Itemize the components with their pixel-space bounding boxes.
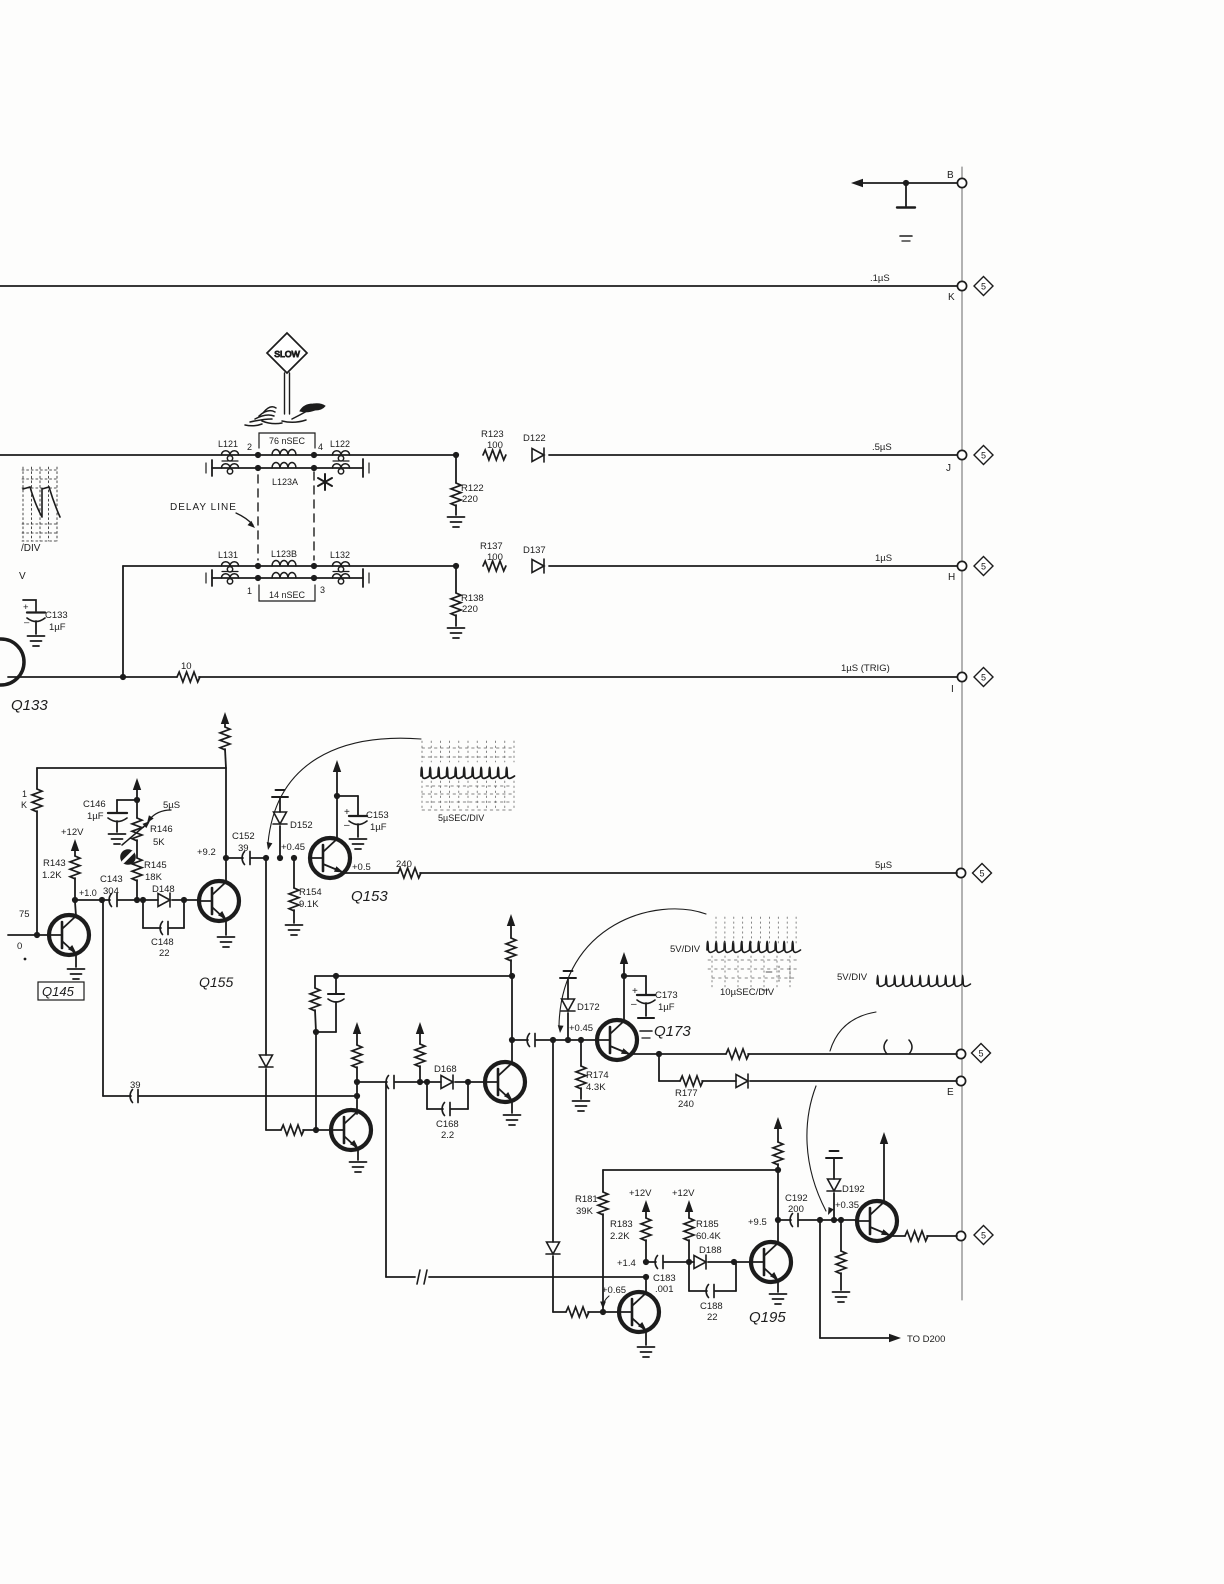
svg-text:+0.5: +0.5 (352, 862, 371, 873)
base junction (600, 1309, 606, 1315)
pointer arrow to delay line (236, 513, 253, 525)
svg-text:.1µS: .1µS (870, 273, 890, 284)
svg-text:SLOW: SLOW (274, 349, 300, 359)
svg-text:1.2K: 1.2K (42, 870, 62, 881)
resistor R154 9.1K (293, 858, 295, 888)
emitter to ground (511, 1101, 513, 1113)
svg-text:D188: D188 (699, 1245, 722, 1256)
svg-text:5µS: 5µS (163, 800, 180, 811)
termination stub left (top secondary) (211, 460, 213, 476)
node K connector (957, 281, 966, 290)
ground below C173 (638, 1017, 654, 1019)
transistor Q173 (597, 1020, 637, 1060)
waveform trace 10uSEC/DIV (707, 941, 801, 952)
node +9.5 junction (775, 1217, 781, 1223)
waveform trace right (877, 975, 971, 986)
transistor Q145 (49, 915, 89, 955)
junction (cap side) (550, 1037, 556, 1043)
bias resistor to ground (840, 1220, 842, 1251)
diode D168 (441, 1075, 453, 1089)
svg-text:R183: R183 (610, 1219, 633, 1230)
arrow top of timing network (133, 778, 141, 790)
inductor L123A secondary winding (272, 463, 296, 469)
resistor top of collector rail with arrow (221, 712, 229, 724)
ground below R138 (448, 628, 465, 638)
capacitor C148 22 bypass loop (142, 900, 144, 928)
interconnect diamond 5 (K) (974, 277, 993, 296)
series diode on E wire (702, 1080, 736, 1082)
svg-text:D172: D172 (577, 1002, 600, 1013)
svg-text:1µS: 1µS (875, 553, 892, 564)
svg-text:1µF: 1µF (87, 811, 104, 822)
svg-text:240: 240 (396, 859, 412, 870)
wire Q173 base node (553, 1039, 598, 1041)
emitter wire to output resistor (890, 1235, 905, 1237)
node I connector (957, 672, 966, 681)
svg-text:C188: C188 (700, 1301, 723, 1312)
inductor L123A (primary winding) (272, 450, 296, 456)
svg-text:I: I (951, 684, 954, 695)
waveform graticule 5uSEC/DIV (422, 741, 514, 811)
resistor R174 4.3K (580, 1040, 582, 1066)
node +1.0 junction (72, 897, 78, 903)
resistor R181 39K (602, 1170, 604, 1192)
svg-text:Q145: Q145 (42, 984, 75, 999)
junction D188 anode (686, 1259, 692, 1265)
svg-text:+12V: +12V (61, 827, 84, 838)
diode D122 (532, 448, 544, 462)
svg-text:Q155: Q155 (199, 974, 233, 990)
Q155 emitter to ground (225, 920, 227, 935)
svg-text:R138: R138 (461, 593, 484, 604)
coupling capacitor to Q173 base (512, 1039, 528, 1041)
capacitor C168 2.2 loop (426, 1082, 428, 1109)
svg-text:5µSEC/DIV: 5µSEC/DIV (438, 813, 484, 823)
node 4 junction (311, 452, 317, 458)
junction on I row (120, 674, 126, 680)
svg-text:D148: D148 (152, 884, 175, 895)
wire into Q145 base (8, 934, 50, 936)
supply arrow + resistor above mid-stage collector (507, 914, 515, 926)
svg-text:22: 22 (159, 948, 170, 959)
ground below R154 (286, 925, 303, 935)
node +9.2 junction (223, 855, 229, 861)
node B connector (957, 178, 966, 187)
label box Q145 (38, 982, 84, 1000)
capacitor C173 1uF (624, 975, 646, 977)
resistor left mid column (314, 976, 316, 988)
svg-text:5K: 5K (153, 837, 165, 848)
junction J row at R122 (453, 452, 459, 458)
svg-text:D192: D192 (842, 1184, 865, 1195)
svg-text:220: 220 (462, 604, 478, 615)
asterisk mark (318, 474, 332, 490)
svg-text:C192: C192 (785, 1193, 808, 1204)
diode D188 (694, 1255, 706, 1269)
svg-text:E: E (947, 1087, 954, 1098)
inductor L121 (221, 451, 238, 461)
capacitor C146 1uF (117, 799, 137, 801)
junction C148 right (181, 897, 187, 903)
transistor Q133 (edge of page) (0, 639, 24, 685)
svg-text:L121: L121 (218, 439, 238, 449)
resistor R122 220 (455, 455, 457, 483)
junction (R174 leg) (578, 1037, 584, 1043)
pointer arc from 10uS waveform to Q173 base (559, 909, 706, 1026)
svg-text:C143: C143 (100, 874, 123, 885)
delay line 76nSEC bracket label (259, 433, 315, 448)
wire top rail of Q145/Q155 stage (37, 767, 226, 769)
emitter to ground (645, 1331, 647, 1345)
svg-text:Q133: Q133 (11, 697, 48, 714)
junction (255, 563, 261, 569)
svg-text:V: V (19, 571, 26, 582)
svg-text:R143: R143 (43, 858, 66, 869)
svg-text:Q153: Q153 (351, 888, 388, 905)
svg-text:TO D200: TO D200 (907, 1334, 945, 1345)
waveform graticule (sweep /DIV) top-left (22, 467, 57, 541)
svg-text:Q173: Q173 (654, 1023, 691, 1040)
svg-text:+9.5: +9.5 (748, 1217, 767, 1228)
resistor R137 100 (483, 561, 506, 571)
ground below C133 (28, 636, 45, 646)
emitter to ground (357, 1149, 359, 1160)
junction (311, 563, 317, 569)
junction (top secondary, pin4 side) (311, 465, 317, 471)
svg-text:R154: R154 (299, 887, 322, 898)
svg-text:.001: .001 (655, 1284, 674, 1295)
resistor (1K, edge labels) left column (36, 768, 38, 789)
svg-text:R137: R137 (480, 541, 503, 552)
svg-text:5V/DIV: 5V/DIV (837, 972, 868, 983)
svg-text:C146: C146 (83, 799, 106, 810)
svg-text:9.1K: 9.1K (299, 899, 319, 910)
Q155 collector wire to rail (225, 768, 227, 882)
svg-text:1µF: 1µF (49, 622, 66, 633)
svg-text:C133: C133 (45, 610, 68, 621)
svg-text:–: – (24, 617, 30, 628)
svg-text:304: 304 (103, 886, 119, 897)
svg-text:–: – (631, 999, 637, 1010)
capacitor C188 22 loop (688, 1262, 690, 1291)
svg-text:5: 5 (981, 561, 986, 571)
coupling capacitor (mid) (357, 1081, 387, 1083)
svg-text:.5µS: .5µS (872, 442, 892, 453)
junction R154 leg (291, 855, 297, 861)
wire feedback rail (603, 1169, 778, 1171)
capacitor C153 1uF (337, 795, 358, 797)
inductor L123B (winding) (272, 561, 296, 567)
svg-text:C152: C152 (232, 831, 255, 842)
wire 1uS row (H) left segment (123, 565, 456, 567)
svg-text:+0.45: +0.45 (569, 1023, 593, 1034)
capacitor C133 1uF (23, 600, 36, 611)
ground below C146 (109, 834, 126, 844)
junction pin1 (255, 575, 261, 581)
diode D148 (158, 893, 170, 907)
wire .5uS row (J) left segment (0, 454, 456, 456)
svg-text:L123A: L123A (272, 477, 298, 487)
wire from I row up to H row (122, 566, 124, 677)
node 5uS output connector (956, 868, 965, 877)
svg-text:10: 10 (181, 661, 192, 672)
pointer arc to E-upper wire (830, 1012, 876, 1051)
svg-text:1µF: 1µF (658, 1002, 675, 1013)
bottom output connector (956, 1231, 965, 1240)
svg-text:R174: R174 (586, 1070, 609, 1081)
capacitor C143 304 (109, 894, 117, 907)
wire Q153 emitter 5uS row (343, 872, 398, 874)
inductor L122 (332, 451, 349, 461)
svg-text:5: 5 (981, 1230, 986, 1240)
svg-text:3: 3 (320, 585, 325, 595)
coupled bead under L132 (332, 574, 349, 584)
spark gap marks ( ) (884, 1040, 912, 1054)
svg-text:4: 4 (318, 442, 323, 452)
svg-text:+0.65: +0.65 (602, 1285, 626, 1296)
termination stub right (top secondary) (362, 459, 364, 477)
resistor R145 18K (132, 858, 142, 881)
transistor Q195 (751, 1242, 791, 1282)
collector with supply arrow (883, 1139, 885, 1202)
svg-text:1: 1 (247, 586, 252, 596)
svg-text:K: K (21, 800, 27, 810)
svg-text:R145: R145 (144, 860, 167, 871)
transistor (mid stage follower) (485, 1062, 525, 1102)
wire from +1.0 column to mid stage (103, 1095, 131, 1097)
svg-text:2.2: 2.2 (441, 1130, 454, 1141)
wire down to lower stage (102, 900, 104, 1096)
node 2 junction (255, 452, 261, 458)
svg-text:+0.45: +0.45 (281, 842, 305, 853)
wire secondary row (top) (212, 467, 363, 469)
ground below Q155 (218, 937, 235, 947)
base resistor bottom driver (553, 1311, 566, 1313)
svg-text:K: K (948, 292, 955, 303)
diode D172 with floating ground (560, 971, 576, 978)
ground below bottom driver (638, 1347, 655, 1357)
clamp diode column from D152 node (265, 858, 267, 1055)
svg-text:39: 39 (238, 843, 249, 854)
svg-text:R177: R177 (675, 1088, 698, 1099)
svg-text:+: + (23, 602, 29, 613)
svg-text:Q195: Q195 (749, 1309, 786, 1326)
wire down-feed x386 (385, 1082, 387, 1277)
pointer arc from waveform to D152 node (268, 738, 421, 843)
interconnect diamond 5 (H) (974, 557, 993, 576)
svg-text:75: 75 (19, 909, 30, 920)
svg-text:R122: R122 (461, 483, 484, 494)
svg-text:R123: R123 (481, 429, 504, 440)
svg-text:14 nSEC: 14 nSEC (269, 590, 306, 600)
svg-text:4.3K: 4.3K (586, 1082, 606, 1093)
coupled bead under L122 with core dashes (332, 464, 349, 474)
wire mid rail (315, 975, 512, 977)
node E upper connector (956, 1049, 965, 1058)
junction cap branch (354, 1079, 360, 1085)
ground below R174 (573, 1101, 590, 1111)
svg-text:5: 5 (981, 281, 986, 291)
svg-text:10µSEC/DIV: 10µSEC/DIV (720, 987, 775, 998)
waveform trace (5uS spikes) (421, 767, 515, 778)
delay line shield dashed line (right) (313, 472, 315, 560)
resistor R123 100 (483, 450, 506, 460)
variable resistor R146 5K (136, 800, 138, 818)
Q195 collector (777, 1220, 779, 1243)
transistor bottom driver (619, 1292, 659, 1332)
wire mid column down to base junction (315, 1032, 317, 1130)
junction on B wire (903, 180, 909, 186)
svg-text:18K: 18K (145, 872, 163, 883)
transistor Q153 (310, 838, 350, 878)
wire secondary row (bottom) (212, 577, 363, 579)
inductor L132 (332, 562, 349, 572)
svg-text:5V/DIV: 5V/DIV (670, 944, 701, 955)
svg-text:D168: D168 (434, 1064, 457, 1075)
collector wire to C183 node (645, 1277, 647, 1293)
node J connector (957, 450, 966, 459)
svg-text:D122: D122 (523, 433, 546, 444)
resistor R177 240 (659, 1080, 680, 1082)
svg-text:+12V: +12V (629, 1188, 652, 1199)
svg-text:39K: 39K (576, 1206, 594, 1217)
svg-text:L122: L122 (330, 439, 350, 449)
svg-text:R146: R146 (150, 824, 173, 835)
ground below C153 (350, 839, 367, 849)
wire +1.0 node to C143 (75, 899, 110, 901)
svg-text:200: 200 (788, 1204, 804, 1215)
svg-text:+12V: +12V (672, 1188, 695, 1199)
transistor output stage (right) (857, 1201, 897, 1241)
junction long wire (354, 1093, 360, 1099)
wire net .1uS to node K (0, 285, 957, 287)
junction bias resistor leg (838, 1217, 844, 1223)
resistor R185 60.4K (684, 1218, 694, 1241)
Q173 collector with supply arrow (623, 958, 625, 1021)
pointer arc to D192 node (807, 1086, 826, 1211)
ground below R122 (448, 517, 465, 527)
svg-text:L132: L132 (330, 550, 350, 560)
transistor (mid-left inverter) (331, 1110, 371, 1150)
diode D152 with floating ground (272, 790, 288, 797)
Q153 collector with supply arrow (336, 768, 338, 839)
svg-text:22: 22 (707, 1312, 718, 1323)
svg-text:C153: C153 (366, 810, 389, 821)
svg-text:/DIV: /DIV (21, 543, 41, 554)
svg-text:39: 39 (130, 1080, 141, 1091)
wire TO D200 (819, 1220, 821, 1338)
svg-text:0: 0 (17, 941, 22, 952)
svg-text:+9.2: +9.2 (197, 847, 216, 858)
node E connector (956, 1076, 965, 1085)
interconnect diamond 5 (bottom) (974, 1226, 993, 1245)
svg-text:1µF: 1µF (370, 822, 387, 833)
svg-text:R181: R181 (575, 1194, 598, 1205)
capacitor C192 200 (778, 1219, 791, 1221)
wire J row from delay line to bus (549, 454, 957, 456)
diode D137 (532, 559, 544, 573)
wire: interconnect bus edge line (961, 167, 963, 1300)
svg-text:B: B (947, 170, 954, 181)
wire to B with arrow (856, 182, 957, 184)
wire bottom feed with tilted capacitor (386, 1276, 415, 1278)
svg-text:C183: C183 (653, 1273, 676, 1284)
capacitor mid rail (333, 973, 339, 979)
collector wire to mid rail (511, 976, 513, 1063)
junction (top secondary, pin2 side) (255, 465, 261, 471)
resistor R183 2.2K (641, 1218, 651, 1241)
svg-text:1µS (TRIG): 1µS (TRIG) (841, 663, 890, 674)
ground below mid-left transistor (350, 1162, 367, 1172)
transistor Q155 (199, 881, 239, 921)
capacitor C183 .001 (646, 1261, 656, 1263)
junction D152 leg (277, 855, 283, 861)
svg-text:+0.35: +0.35 (835, 1200, 859, 1211)
junction R145 bottom (134, 897, 140, 903)
interconnect diamond 5 (J) (974, 446, 993, 465)
junction resistor column (417, 1079, 423, 1085)
svg-text:DELAY LINE: DELAY LINE (170, 502, 237, 513)
inductor L131 (221, 562, 238, 572)
resistor R138 220 (455, 566, 457, 593)
svg-text:R185: R185 (696, 1219, 719, 1230)
svg-text:5: 5 (981, 672, 986, 682)
screwdriver adjust symbol (120, 849, 136, 865)
junction C148 left (140, 897, 146, 903)
resistor 10 (177, 672, 200, 682)
svg-text:J: J (946, 463, 951, 474)
supply arrow + resistor above D168 (416, 1022, 424, 1034)
resistor 240 (5uS) (398, 868, 421, 878)
junction D152 node (263, 855, 269, 861)
coupled bead under L121 with core dashes (221, 464, 238, 474)
junction D192 leg (831, 1217, 837, 1223)
svg-text:76 nSEC: 76 nSEC (269, 436, 306, 446)
base resistor (266, 1129, 281, 1131)
ground (chassis) below B stub (900, 235, 912, 237)
ground below bias resistor (833, 1292, 850, 1302)
supply arrow + resistor x357 column (353, 1022, 361, 1034)
svg-text:240: 240 (678, 1099, 694, 1110)
ground below mid transistor (504, 1115, 521, 1125)
svg-text:–: – (344, 820, 350, 831)
capacitor 39 (130, 1090, 138, 1103)
capacitor stub to ground at B (905, 183, 907, 206)
svg-text:D152: D152 (290, 820, 313, 831)
svg-text:L123B: L123B (271, 549, 297, 559)
wire Q173 emitter row (630, 1053, 726, 1055)
ground below Q195 (770, 1294, 787, 1304)
junction C168 left (424, 1079, 430, 1085)
svg-text:5µS: 5µS (875, 860, 892, 871)
interconnect diamond 5 (I) (974, 668, 993, 687)
base junction (313, 1127, 319, 1133)
capacitor C152 39 (226, 857, 243, 859)
junction C168 right (465, 1079, 471, 1085)
svg-text:H: H (948, 572, 955, 583)
svg-text:C168: C168 (436, 1119, 459, 1130)
junction pin3 (311, 575, 317, 581)
svg-text:5: 5 (981, 450, 986, 460)
series diode from Q173 base column (552, 1040, 554, 1242)
delay line 14nSEC bracket label (259, 585, 315, 601)
svg-text:2: 2 (247, 442, 252, 452)
junction mid column (313, 1029, 319, 1035)
junction H row at R138 (453, 563, 459, 569)
svg-text:100: 100 (487, 552, 503, 563)
coupled bead under L131 with core dashes (221, 574, 238, 584)
ground below Q145 (68, 969, 85, 979)
